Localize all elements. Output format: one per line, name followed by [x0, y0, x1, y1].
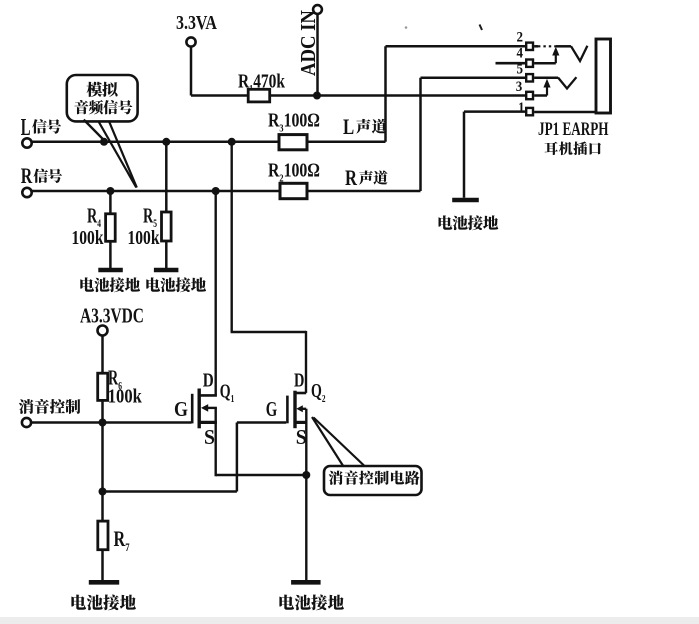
node R R4: [106, 187, 114, 195]
svg-text:1: 1: [518, 99, 525, 115]
svg-text:A3.3VDC: A3.3VDC: [80, 304, 144, 327]
node ADC junction: [313, 92, 321, 100]
resistor R3: [279, 135, 307, 150]
callout mute wedge left: [312, 417, 344, 467]
wire Q1 drain column: [214, 191, 216, 395]
callout wedge left: [99, 122, 137, 188]
jack switch contact V2: [558, 77, 576, 88]
resistor R2: [280, 183, 307, 198]
jack wiper arrow 2: [543, 79, 550, 96]
node mute junction: [99, 419, 107, 427]
wire ADC IN down: [316, 14, 319, 96]
wire R6 bottom: [101, 400, 104, 422]
svg-text:R: R: [345, 167, 358, 191]
wire pin1 left: [464, 110, 527, 113]
svg-text:G: G: [266, 397, 277, 420]
wire mute down: [101, 423, 104, 492]
wire Q2 source down: [305, 409, 307, 580]
wire pin2 right2: [556, 45, 571, 48]
terminal A3.3VDC: [98, 326, 108, 336]
svg-text:G: G: [174, 399, 188, 422]
svg-text:L: L: [21, 114, 31, 141]
wire R1 to pin3: [270, 94, 527, 97]
svg-text:3: 3: [516, 78, 523, 94]
wire R5 top: [165, 142, 168, 212]
wire Q2 drain horiz: [231, 331, 306, 333]
wire Q2 drain column: [230, 142, 232, 332]
wire A33 down: [101, 336, 104, 374]
wire Q1 source down: [214, 408, 216, 476]
terminal ADC IN: [313, 5, 322, 14]
jack wiper arrow 1: [552, 47, 559, 63]
ground R7: [89, 580, 119, 585]
transistor Q2 arrow: [296, 405, 303, 412]
ground Q2: [291, 580, 321, 585]
label R channel cjk: [359, 171, 388, 185]
transistor Q1 arrow: [201, 404, 208, 412]
wire R2 to riser: [307, 190, 421, 193]
svg-text:S: S: [204, 426, 215, 449]
callout pointer to L: [84, 120, 104, 141]
node R Q1col: [212, 187, 220, 195]
label ground R7: [71, 595, 135, 611]
wire 3.3VA down: [190, 47, 193, 96]
scan speck 2: [480, 25, 483, 31]
svg-text:100k: 100k: [128, 226, 160, 248]
wire 3.3VA to R1: [191, 94, 249, 97]
svg-text:Q2: Q2: [311, 380, 326, 404]
svg-text:L: L: [343, 115, 354, 140]
wire R top to pin5: [421, 77, 527, 80]
svg-text:S: S: [296, 426, 307, 449]
ground pin1: [452, 198, 479, 203]
label analog cjk2: [74, 100, 132, 114]
svg-text:100k: 100k: [108, 385, 143, 407]
wire Q2 drain down: [305, 331, 307, 393]
scan speck 1: [405, 26, 408, 29]
wire bottom horiz: [103, 490, 237, 493]
connector pin 1 square: [526, 108, 533, 115]
label analog cjk1: [87, 82, 118, 97]
resistor R6: [98, 373, 108, 400]
connector pin 3 square: [526, 92, 533, 99]
wire L top to pin2: [386, 45, 527, 48]
wire R5 bottom: [165, 241, 168, 270]
wire L riser: [384, 46, 387, 142]
svg-text:R: R: [21, 165, 33, 189]
resistor R4: [106, 214, 116, 242]
node L R5: [162, 138, 170, 146]
label ground Q2: [279, 595, 343, 611]
jack switch contact V1: [571, 46, 587, 61]
ground R4: [98, 268, 123, 273]
label mute control: [19, 399, 81, 414]
callout mute bubble: [324, 466, 422, 495]
svg-text:JP1 EARPH: JP1 EARPH: [538, 118, 609, 140]
ground R5: [154, 268, 179, 273]
terminal mute: [22, 418, 31, 427]
wire mute: [31, 421, 192, 424]
label ground R5: [146, 277, 206, 292]
wire pin2 dotted: [538, 45, 557, 47]
svg-text:Q1: Q1: [220, 380, 235, 404]
wire pin3 right: [534, 94, 547, 97]
svg-text:5: 5: [517, 61, 524, 77]
svg-text:4: 4: [517, 45, 524, 61]
terminal 3.3VA: [186, 37, 195, 46]
wire R riser: [419, 78, 422, 191]
label L channel cjk: [356, 119, 387, 134]
scan edge shading bottom: [0, 617, 699, 624]
wire Q2 gate: [237, 421, 286, 424]
wire R4 top: [109, 191, 112, 214]
svg-text:D: D: [294, 368, 304, 391]
callout wedge right: [109, 121, 137, 188]
terminal R signal: [22, 188, 31, 197]
label ground R4: [80, 277, 140, 292]
label ground pin1: [439, 215, 499, 230]
svg-text:2: 2: [517, 29, 524, 45]
callout mute wedge right: [314, 418, 365, 466]
terminal L signal: [22, 138, 31, 147]
connector pin 4 square: [526, 60, 533, 67]
label L signal cjk: [32, 119, 61, 134]
wire pin1 right: [534, 111, 596, 114]
wire pin4 right: [534, 62, 556, 65]
svg-text:3.3VA: 3.3VA: [176, 11, 217, 33]
label jack cjk: [545, 142, 601, 156]
wire R7 down: [101, 550, 104, 581]
jack sleeve: [596, 39, 611, 113]
transistor Q1: [192, 389, 217, 429]
wire R7 up: [101, 492, 104, 522]
wire R signal: [32, 190, 280, 193]
connector pin 5 square: [526, 74, 533, 81]
node R7 top: [99, 488, 107, 496]
wire R4 bottom: [109, 241, 112, 269]
svg-text:100k: 100k: [72, 226, 104, 248]
resistor R5: [162, 212, 172, 241]
svg-text:D: D: [203, 368, 214, 391]
transistor Q2: [287, 391, 306, 429]
callout analog audio bubble: [67, 75, 138, 121]
svg-text:ADC IN: ADC IN: [297, 10, 320, 76]
svg-text:R7: R7: [114, 528, 130, 555]
wire pin2 right solid: [534, 45, 538, 48]
resistor R1: [248, 89, 270, 102]
node L Q2col: [228, 138, 236, 146]
node source bus Q2: [302, 471, 310, 479]
wire pin5 right: [534, 77, 558, 80]
wire L signal: [32, 141, 279, 144]
node L pointer: [100, 138, 108, 146]
wire pin1 ground down: [463, 112, 466, 198]
wire source bus: [216, 474, 307, 476]
svg-text:R2100Ω: R2100Ω: [268, 159, 320, 185]
resistor R7: [98, 521, 108, 550]
wire R3 to riser: [307, 141, 386, 144]
connector pin 2 square: [526, 43, 533, 50]
label mute circuit cjk: [329, 471, 420, 485]
svg-text:R3100Ω: R3100Ω: [268, 109, 320, 135]
wire Q2 gate down: [236, 423, 239, 492]
wire pin4 stub: [496, 62, 527, 65]
label R signal cjk: [33, 169, 62, 183]
